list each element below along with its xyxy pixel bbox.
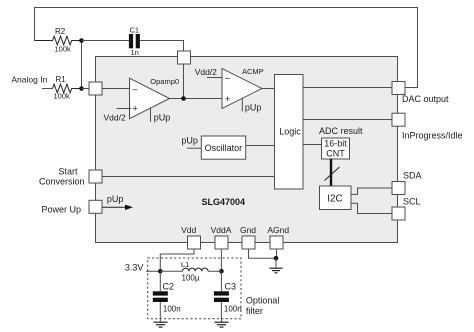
svg-text:+: + [133,104,138,114]
capacitor C2 [153,271,181,322]
wire AGnd pin to ground node [276,249,278,258]
label Analog In [11,75,47,85]
label Vdd [181,225,196,235]
svg-text:–: – [225,73,230,83]
label Start Conversion [39,167,85,187]
ground symbol (AGnd) [270,258,283,273]
resistor R1 [53,75,82,101]
comparator ACMP [222,67,264,108]
svg-text:R2: R2 [55,27,66,36]
svg-text:VddA: VddA [211,225,232,235]
svg-text:pUp: pUp [154,113,171,123]
svg-text:Analog In: Analog In [11,75,47,85]
label SCL [403,197,421,207]
label AGnd [267,225,289,235]
wire Vdd pin to filter node [160,249,194,271]
wire ACMP output to Logic [262,88,275,90]
wire Logic to InProgress pin [303,119,392,121]
svg-text:Start: Start [58,167,78,177]
wire VddA pin to filter node [220,249,222,271]
label Vdd/2 (ACMP) [195,67,217,77]
logic block [275,75,304,190]
svg-text:C1: C1 [130,25,140,34]
svg-text:Opamp0: Opamp0 [150,77,179,86]
pin VddA [215,236,228,249]
bus CNT to I2C [325,159,340,186]
pin SDA [392,182,405,195]
wire opamp output to ACMP + input [170,98,223,100]
wire feedback loop (DAC output to R2) [35,8,418,88]
wire Analog In to R1 [42,88,53,90]
svg-text:Gnd: Gnd [240,225,256,235]
svg-text:C3: C3 [225,282,237,292]
oscillator block [201,136,245,159]
label pUp (oscillator) [181,136,198,146]
label Gnd [240,225,256,235]
wire I2C to SDA pin [351,188,392,194]
svg-text:Optional: Optional [246,296,280,306]
inductor L1 [160,260,221,283]
capacitor C1 [129,25,140,57]
wire Vdd/2 to opamp + input [117,108,132,110]
wire Gnd pin to ground node [249,249,277,258]
pin Vdd [188,236,201,249]
svg-text:Logic: Logic [279,126,301,136]
svg-text:Power Up: Power Up [41,205,81,215]
svg-text:+: + [225,94,230,104]
label InProgress/Idle [402,131,463,141]
pin AGnd [270,236,283,249]
svg-text:DAC output: DAC output [402,94,449,104]
pin start conversion [89,170,102,183]
svg-text:100n: 100n [224,305,242,314]
label SLG47004 [202,197,246,207]
label pUp (power up) [107,194,124,204]
arrow pUp from power up pin [102,205,133,210]
label Optional filter [246,296,280,317]
wire pin to opamp inverting input [102,88,130,90]
svg-text:–: – [133,84,138,94]
pUp stub opamp [151,108,171,123]
wire Logic to DAC output pin [303,87,392,89]
svg-text:L1: L1 [181,260,189,269]
svg-text:3.3V: 3.3V [125,263,144,273]
svg-text:Vdd/2: Vdd/2 [104,113,126,123]
svg-text:InProgress/Idle: InProgress/Idle [402,131,463,141]
capacitor C3 [214,271,242,322]
junction dot node A top [79,38,84,43]
svg-text:Conversion: Conversion [39,177,85,187]
junction dot node A bottom [79,86,84,91]
svg-text:pUp: pUp [181,136,198,146]
resistor R2 [35,27,82,54]
wire 3.3V to node [146,270,160,272]
wire top pin to output node [183,64,185,99]
svg-text:Vdd/2: Vdd/2 [195,67,217,77]
wire node A to C1 [82,40,130,42]
junction dot ground node [274,256,279,261]
svg-text:1n: 1n [131,48,139,57]
pin analog in (left edge) [89,82,102,95]
wire I2C to SCL pin [351,203,392,213]
label ADC result [319,126,363,136]
svg-text:pUp: pUp [245,103,262,113]
wire Logic to 16-bit CNT [303,144,322,146]
pin C1 top [178,51,191,64]
pin DAC output [392,82,405,95]
svg-text:R1: R1 [56,75,67,84]
op-amp Opamp0 [130,77,180,119]
label VddA [211,225,232,235]
pin SCL [392,207,405,220]
junction dot opamp output [181,96,186,101]
svg-text:I2C: I2C [327,193,343,204]
junction dot filter right [219,269,224,274]
svg-text:CNT: CNT [326,149,345,159]
wire C1 to top pin [140,41,184,52]
ground symbol (C2) [154,322,168,327]
svg-text:ADC result: ADC result [319,126,363,136]
svg-text:Vdd: Vdd [181,225,196,235]
I2C block [320,186,352,210]
pUp stub ACMP [242,99,261,113]
label Power Up [41,205,81,215]
wire oscillator to Logic [246,145,275,147]
junction dot filter left [158,269,163,274]
svg-text:ACMP: ACMP [242,67,264,76]
wire R1 to analog pin [82,88,90,90]
label 3.3V [125,263,144,273]
wire pUp stub to oscillator [187,147,201,149]
svg-text:100k: 100k [54,92,71,101]
wire start conversion to Logic [102,176,275,178]
counter 16-bit CNT [322,138,350,159]
svg-text:SCL: SCL [403,197,421,207]
pin InProgress/Idle [392,113,405,126]
svg-text:16-bit: 16-bit [324,138,347,148]
svg-text:filter: filter [246,306,263,316]
svg-text:pUp: pUp [107,194,124,204]
label SDA [403,171,422,181]
wire Vdd/2 to ACMP - input [207,77,222,79]
pin power up [89,200,102,213]
svg-text:AGnd: AGnd [267,225,289,235]
label DAC output [402,94,449,104]
label Vdd/2 (opamp) [104,113,126,123]
pin Gnd [242,236,255,249]
svg-text:SLG47004: SLG47004 [202,197,246,207]
svg-text:SDA: SDA [403,171,422,181]
wire node A vertical (R2/R1 junction) [81,41,83,89]
ground symbol (C3) [215,322,229,327]
svg-text:100n: 100n [163,305,181,314]
svg-text:C2: C2 [163,282,175,292]
chip SLG47004 body [96,57,398,243]
svg-text:Oscillator: Oscillator [205,143,243,153]
dashed box optional filter [148,258,241,319]
svg-text:100k: 100k [55,45,72,54]
svg-text:100µ: 100µ [182,274,200,283]
